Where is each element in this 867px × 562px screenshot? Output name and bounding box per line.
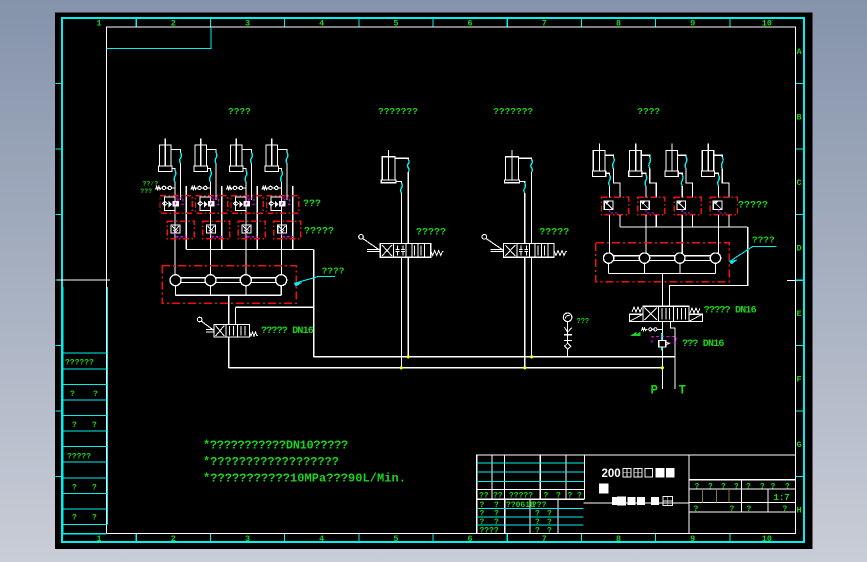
- svg-text:?????: ?????: [539, 228, 569, 239]
- wire VR4 return: [728, 215, 730, 227]
- svg-text:?: ?: [694, 505, 699, 514]
- cylinder CY2 body: [195, 145, 207, 166]
- lever valve LV1 crossed arrows: [382, 245, 392, 256]
- red box right unit2: [638, 197, 665, 214]
- pilot dashed box row1 unit2: [210, 198, 218, 205]
- frame centering mark right white: [787, 280, 796, 282]
- cylinder CM2 body: [506, 157, 519, 180]
- red box row2 unit1: [167, 221, 194, 239]
- title block right column texts: [694, 482, 791, 514]
- svg-text:3: 3: [245, 534, 250, 544]
- bottom zone ticks: [136, 534, 730, 543]
- svg-text:7: 7: [542, 534, 547, 544]
- right zone letters: [797, 47, 803, 516]
- lever valve LV2 right cell bars: [537, 246, 539, 256]
- svg-text:?: ?: [708, 482, 713, 491]
- wire lineA unit2: [210, 182, 212, 275]
- manifold M2 drop 4: [715, 263, 717, 273]
- pilot dash right unit4: [719, 210, 728, 213]
- svg-text:????: ????: [322, 266, 345, 277]
- cylinder CM1 cap-side port: [396, 181, 401, 183]
- lever valve LV2 center T bars: [519, 246, 528, 250]
- top zone ticks: [136, 18, 730, 27]
- coupling symbol unit3: [227, 187, 234, 190]
- top-left revision strip cyan: [107, 27, 212, 49]
- hand valve HV1 crossed arrows: [216, 326, 225, 337]
- svg-text:*??????????????????: *??????????????????: [203, 455, 339, 469]
- svg-text:?: ?: [746, 482, 751, 491]
- svg-text:??: ??: [479, 492, 489, 501]
- svg-text:1:7: 1:7: [774, 493, 790, 503]
- svg-text:2: 2: [171, 534, 176, 544]
- svg-text:?: ?: [70, 390, 75, 399]
- svg-text:?: ?: [771, 482, 776, 491]
- wire CR3 cap side down: [681, 186, 683, 198]
- hose CM1 rod side: [408, 160, 410, 173]
- wire rod-side CY3 down: [251, 164, 253, 201]
- cylinder CR2 rod-side port: [641, 155, 650, 157]
- svg-text:?: ?: [783, 505, 788, 514]
- wire LV2 T drop: [531, 257, 533, 357]
- manifold M1 outlet drop: [228, 295, 230, 324]
- svg-text:????? DN16: ????? DN16: [704, 306, 757, 317]
- cylinder CY3 rod-side port line: [242, 150, 252, 153]
- svg-text:F: F: [797, 375, 802, 385]
- wire lineA unit4: [281, 182, 283, 275]
- cylinder CR4 cap-side port: [714, 173, 719, 175]
- wire lineC unit2: [221, 186, 223, 250]
- svg-text:?: ?: [535, 527, 540, 536]
- solenoid SV1 left box: [630, 314, 644, 321]
- cylinder CR1 bottom cap: [593, 171, 606, 177]
- wire VR4 to manifold: [718, 215, 720, 253]
- svg-text:?: ?: [72, 514, 77, 523]
- ball valve BV1 body: [659, 340, 666, 347]
- title block middle cell divider: [688, 455, 690, 534]
- coupling symbol unit2: [191, 187, 198, 190]
- cylinder CY4 body: [266, 145, 278, 166]
- svg-text:?: ?: [92, 484, 97, 493]
- ball valve BV1 dashed box: [652, 337, 676, 343]
- svg-text:B: B: [797, 113, 802, 123]
- svg-text:200: 200: [602, 468, 621, 480]
- svg-text:?: ?: [568, 492, 573, 501]
- cyan sheet border: [62, 18, 804, 542]
- coupling symbol unit4: [262, 187, 269, 190]
- lever valve LV1 body: [380, 244, 431, 258]
- bleed coupling near SV1: [642, 328, 648, 331]
- bottom zone numbers: [97, 534, 772, 544]
- ball valve BV1 hose mark: [661, 333, 663, 350]
- solenoid SV1 right spring: [690, 308, 700, 313]
- title block revision cyan rows: [477, 509, 584, 526]
- valve VR4: [713, 201, 722, 210]
- lever valve LV2 spring: [554, 251, 567, 256]
- cylinder CY3 rod: [235, 139, 237, 167]
- cylinder CY3 cap-side port line: [243, 169, 246, 171]
- cylinder CY1 rod: [164, 139, 166, 167]
- svg-text:5: 5: [393, 534, 398, 544]
- svg-text:?: ?: [556, 492, 561, 501]
- cylinder CY2 cap-side port line: [208, 169, 211, 171]
- title block right column olive separators: [703, 490, 729, 502]
- hose rod-side CY4: [286, 153, 288, 164]
- frame centering mark right cyan: [796, 280, 805, 282]
- leader arrow manifold M1: [294, 276, 335, 283]
- lever valve LV1 spring: [431, 251, 444, 256]
- svg-text:P: P: [651, 384, 659, 398]
- svg-text:1: 1: [97, 19, 102, 29]
- cylinder CY1 bottom cap: [159, 166, 173, 172]
- manifold M2 bottom bus: [609, 272, 716, 274]
- pressure bus lower: [229, 367, 663, 369]
- hand valve HV1 spring: [250, 332, 259, 336]
- svg-text:?: ?: [93, 390, 98, 399]
- svg-text:?: ?: [747, 505, 752, 514]
- svg-text:*???????????10MPa???90L/Min.: *???????????10MPa???90L/Min.: [203, 472, 406, 486]
- valve VR3: [677, 201, 686, 210]
- return riser right: [669, 227, 747, 306]
- svg-text:????: ????: [480, 527, 499, 536]
- cylinder CR4 rod: [707, 144, 709, 171]
- svg-text:????: ????: [228, 106, 251, 117]
- pilot dash right unit1: [610, 210, 619, 213]
- hose rod-side CY1: [180, 153, 182, 164]
- left margin table rows: [62, 353, 108, 524]
- manifold M2 port circle 3: [675, 253, 685, 263]
- svg-text:6: 6: [468, 534, 473, 544]
- hose rod-side CY2: [215, 153, 217, 164]
- svg-text:??? DN16: ??? DN16: [682, 339, 724, 350]
- svg-text:?: ?: [577, 492, 582, 501]
- red box row2 unit3: [238, 221, 265, 239]
- tank bus upper: [314, 356, 675, 358]
- left zone ticks: [56, 84, 63, 477]
- svg-text:?: ?: [734, 482, 739, 491]
- red box row1 unit1: [160, 196, 192, 214]
- wire VR2 return: [655, 215, 657, 227]
- manifold M2 drop 2: [644, 263, 646, 273]
- cylinder CM1 body: [382, 157, 395, 180]
- manifold M1 port circle 4: [276, 275, 287, 286]
- svg-text:??: ??: [493, 492, 503, 501]
- check valve V14: [271, 197, 282, 211]
- manifold M2 port circle 4: [710, 253, 720, 263]
- wire lineC unit1: [185, 186, 187, 250]
- cylinder CY4 rod-side port line: [278, 150, 288, 153]
- manifold M1 rail lines: [176, 277, 282, 279]
- cylinder CM2 rod-side port: [518, 158, 531, 159]
- cylinder CR3 rod: [671, 144, 673, 171]
- hose cap-side CY2: [210, 171, 212, 183]
- shutoff valve V24: [278, 225, 287, 233]
- svg-text:9: 9: [690, 534, 695, 544]
- wire VR3 to manifold: [681, 215, 683, 253]
- wire LV1 T drop: [407, 257, 409, 357]
- junction dot P 2: [524, 367, 526, 369]
- wire return riser: [313, 250, 315, 357]
- hose CR2 cap side: [645, 175, 647, 186]
- hose CR1 rod side: [613, 157, 615, 169]
- svg-text:?????: ?????: [416, 228, 446, 239]
- wire CR4 rod side jog: [722, 169, 729, 198]
- gauge G1 diamond: [565, 343, 571, 349]
- svg-text:C: C: [797, 178, 802, 188]
- wire CM2 A riser: [524, 193, 526, 244]
- svg-text:D: D: [797, 244, 802, 254]
- title block right column lines: [689, 480, 796, 512]
- right zone ticks: [796, 84, 805, 477]
- wire CM1 A riser: [400, 193, 402, 244]
- hose CR4 cap side: [718, 175, 720, 186]
- manifold M1 drop 1: [175, 286, 177, 296]
- svg-text:?: ?: [544, 492, 549, 501]
- lever valve LV2 lever: [482, 235, 487, 240]
- cylinder CM2 bottom cap: [505, 180, 520, 183]
- svg-text:??????: ??????: [65, 359, 94, 368]
- cylinder CR1 body: [593, 151, 605, 171]
- wire HV1 bottom drop: [228, 337, 230, 368]
- gauge G1 circle: [563, 313, 572, 322]
- cylinder CY4 rod: [271, 139, 273, 167]
- manifold M1 bottom bus: [176, 294, 282, 296]
- title block left table top section: [477, 455, 585, 499]
- cylinder CR4 bottom cap: [701, 171, 714, 177]
- cylinder CR4 rod-side port: [714, 155, 723, 157]
- gauge G1 stem: [567, 322, 569, 344]
- cylinder CR1 rod: [598, 144, 600, 171]
- cylinder CR4 body: [702, 151, 714, 171]
- svg-text:H: H: [797, 506, 802, 516]
- pilot dashed box row1 unit4: [281, 198, 289, 205]
- title block middle cell horizontal rule: [584, 502, 689, 504]
- check valve V11: [165, 197, 176, 211]
- cylinder CM1 bottom cap: [381, 180, 396, 183]
- svg-text:???: ???: [140, 188, 152, 195]
- solenoid valve SV1 right cell bars: [677, 308, 679, 320]
- wire SV1 P line down: [661, 321, 663, 389]
- manifold M2 rail lines: [609, 255, 716, 257]
- red box row1 unit2: [196, 196, 228, 214]
- svg-text:*???????????DN10?????: *???????????DN10?????: [203, 439, 348, 453]
- cylinder CR3 bottom cap: [665, 171, 678, 177]
- wire LV2 P drop: [524, 257, 526, 368]
- junction dot T 2: [530, 356, 532, 358]
- svg-text:T: T: [679, 384, 687, 398]
- hose cap-side CY3: [245, 171, 247, 183]
- green flow arrows: [632, 333, 641, 336]
- manifold M2 port circle 2: [639, 253, 649, 263]
- left margin table verticals: [62, 287, 64, 534]
- hose rod-side CY3: [251, 153, 253, 164]
- pilot dash row2 unit4: [282, 233, 293, 237]
- hand valve HV1 lever: [197, 317, 202, 322]
- manifold M1 drop 4: [280, 286, 282, 296]
- svg-text:????? DN16: ????? DN16: [261, 326, 314, 337]
- wire CM2 B riser: [531, 172, 533, 244]
- svg-text:?????: ?????: [509, 492, 533, 501]
- wire HV1 bypass horizontal: [236, 306, 314, 308]
- hose CR2 rod side: [649, 157, 651, 169]
- gauge G1 wire to bus: [567, 349, 569, 357]
- red box right unit3: [674, 197, 701, 214]
- check valve V12: [200, 197, 211, 211]
- cylinder CR3 cap-side port: [678, 173, 683, 175]
- hose cap-side CY1: [174, 171, 176, 183]
- hose CR3 cap side: [681, 175, 683, 186]
- svg-text:E: E: [797, 309, 802, 319]
- hand valve HV1 center bars: [229, 326, 231, 336]
- title block left table cyan rows: [477, 463, 585, 481]
- title text line2 blob: [599, 484, 609, 494]
- wire rod-side CY2 down: [215, 164, 217, 201]
- cylinder CY2 rod: [200, 139, 202, 167]
- hose CM2 rod side: [531, 160, 533, 173]
- title block outer: [477, 455, 796, 534]
- junction dot T 1: [407, 356, 409, 358]
- wire CR1 rod side jog: [613, 169, 620, 198]
- wire lineA unit1: [174, 182, 176, 275]
- cylinder CM1 rod-side port: [395, 158, 408, 159]
- svg-text:4: 4: [319, 534, 324, 544]
- svg-text:???????: ???????: [493, 106, 533, 117]
- wire CR3 rod side jog: [686, 169, 693, 198]
- solenoid SV1 left spring: [632, 307, 642, 312]
- cylinder CY3 body: [231, 145, 243, 166]
- svg-text:?: ?: [547, 527, 552, 536]
- svg-text:?: ?: [695, 482, 700, 491]
- svg-text:?: ?: [760, 482, 765, 491]
- svg-text:8: 8: [616, 534, 621, 544]
- manifold M1 drop 3: [245, 286, 247, 296]
- svg-text:?: ?: [92, 421, 97, 430]
- svg-text:?: ?: [785, 482, 790, 491]
- pilot dash right unit2: [646, 210, 655, 213]
- shutoff valve V23: [242, 225, 251, 233]
- wire LV1 P drop: [400, 257, 402, 368]
- pilot dashed box row1 unit3: [246, 198, 254, 205]
- junction dot P 1: [400, 367, 402, 369]
- manifold M1 drop 2: [210, 286, 212, 296]
- pilot dash row2 unit2: [211, 233, 222, 237]
- hose CR4 rod side: [722, 157, 724, 169]
- leader arrow manifold M2: [730, 246, 777, 261]
- svg-text:??0618: ??0618: [506, 501, 535, 510]
- left margin band bottom cyan: [62, 533, 107, 535]
- manifold M2 outlet drop: [661, 273, 663, 306]
- svg-text:?: ?: [730, 505, 735, 514]
- solenoid SV1 right box: [689, 314, 703, 321]
- lever valve LV1 center T bars: [396, 246, 405, 250]
- cylinder CR2 body: [630, 151, 642, 171]
- lever valve LV1 right cell bars: [414, 246, 416, 256]
- svg-text:?: ?: [92, 514, 97, 523]
- valve VR1: [604, 201, 613, 210]
- red box row1 unit3: [231, 196, 263, 214]
- red box right unit1: [602, 197, 629, 214]
- hose cap-side CY4: [281, 171, 283, 183]
- return bus right cluster: [620, 226, 748, 228]
- white drawing frame: [107, 27, 796, 534]
- cylinder CY1 cap-side port line: [172, 169, 175, 171]
- pilot dash row2 unit3: [247, 233, 258, 237]
- cylinder CR1 rod-side port: [605, 155, 614, 157]
- cylinder CM1 rod: [388, 150, 390, 180]
- manifold M1 port circle 3: [240, 275, 251, 286]
- cylinder CY2 bottom cap: [194, 166, 208, 172]
- cylinder CR3 rod-side port: [678, 155, 687, 157]
- manifold M2 drop 3: [679, 263, 681, 273]
- wire SV1 T jog: [670, 321, 675, 389]
- pilot dashed box row1 unit1: [175, 198, 183, 205]
- svg-text:?: ?: [72, 484, 77, 493]
- red box row2 unit2: [203, 221, 230, 239]
- manifold M1 port circle 2: [205, 275, 216, 286]
- shutoff valve V22: [207, 225, 216, 233]
- solenoid valve SV1 body: [643, 306, 689, 321]
- gauge G1 orifice bars: [564, 334, 572, 336]
- svg-text:???: ???: [577, 318, 590, 326]
- cylinder CR2 cap-side port: [641, 173, 646, 175]
- left margin table texts: [65, 359, 98, 523]
- wire VR2 to manifold: [645, 215, 647, 253]
- wire lineC unit4: [292, 186, 294, 250]
- wire rod-side CY4 down: [286, 164, 288, 201]
- top zone numbers: [97, 19, 772, 29]
- cylinder CY4 cap-side port line: [279, 169, 282, 171]
- cylinder CY2 rod-side port line: [207, 150, 217, 153]
- red box row1 unit4: [267, 196, 299, 214]
- red box row2 unit4: [274, 221, 301, 239]
- svg-text:G: G: [797, 440, 802, 450]
- cylinder CY1 rod-side port line: [171, 150, 181, 153]
- manifold M1 port circle 1: [170, 275, 181, 286]
- wire CM1 B riser: [407, 172, 409, 244]
- svg-text:??⁄?: ??⁄?: [143, 181, 159, 188]
- manifold M2 drop 1: [608, 263, 610, 273]
- lever valve LV2 body: [504, 244, 555, 258]
- svg-text:?????: ?????: [738, 201, 768, 212]
- title text line3 blobs: [612, 497, 673, 506]
- svg-text:10: 10: [762, 534, 772, 544]
- svg-text:A: A: [797, 47, 803, 57]
- lever valve LV1 lever: [359, 235, 364, 240]
- svg-text:?????: ?????: [67, 453, 91, 462]
- cylinder CR3 body: [666, 151, 678, 171]
- coupling symbol unit1: [156, 187, 163, 190]
- cylinder CR2 rod: [635, 144, 637, 171]
- manifold M2 red dashed box: [596, 243, 729, 282]
- wire CR1 cap side down: [609, 186, 611, 198]
- svg-text:?: ?: [721, 482, 726, 491]
- wire CR2 rod side jog: [650, 169, 657, 198]
- wire rod-side CY1 down: [180, 164, 182, 201]
- valve VR2: [641, 201, 650, 210]
- hose CR3 rod side: [685, 157, 687, 169]
- cylinder CM2 rod: [511, 150, 513, 180]
- wire CR4 cap side down: [718, 186, 720, 198]
- wire HV1 top to manifold: [235, 307, 237, 324]
- wire lineC unit3: [256, 186, 258, 250]
- gauge G1 throttle check: [565, 327, 573, 332]
- svg-text:???: ???: [303, 199, 321, 210]
- hose CR1 cap side: [609, 175, 611, 186]
- title block revision table: [505, 499, 558, 533]
- red box right unit4: [710, 197, 737, 214]
- manifold M1 red dashed box: [162, 266, 296, 304]
- svg-text:?????: ?????: [304, 227, 334, 238]
- pilot dash right unit3: [682, 210, 691, 213]
